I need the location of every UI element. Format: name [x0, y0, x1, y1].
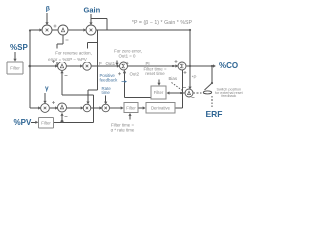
svg-text:Gain: Gain: [84, 5, 101, 14]
svg-text:reset time: reset time: [145, 71, 165, 76]
svg-text:feedback: feedback: [221, 94, 236, 98]
svg-text:Out2: Out2: [130, 71, 140, 76]
svg-text:Bias: Bias: [169, 76, 178, 81]
svg-text:Filter: Filter: [10, 66, 20, 71]
svg-text:ERF: ERF: [206, 109, 223, 119]
svg-text:%SP: %SP: [10, 43, 28, 52]
svg-text:%PV: %PV: [14, 118, 32, 127]
svg-text:P: P: [99, 61, 102, 66]
svg-text:time: time: [102, 90, 111, 95]
svg-text:feedback: feedback: [100, 78, 119, 83]
svg-text:γ: γ: [45, 85, 49, 92]
svg-text:Out1: Out1: [106, 61, 116, 66]
svg-text:α * rate time: α * rate time: [111, 127, 135, 132]
svg-text:*P: *P: [192, 74, 197, 79]
svg-text:Derivative: Derivative: [151, 106, 171, 111]
svg-text:Filter: Filter: [154, 90, 164, 95]
svg-text:β: β: [46, 6, 50, 13]
svg-text:*P = (β − 1) * Gain * %SP: *P = (β − 1) * Gain * %SP: [132, 20, 193, 26]
svg-text:For reverse action,: For reverse action,: [55, 51, 92, 56]
svg-text:PI: PI: [146, 61, 150, 66]
svg-text:Filter: Filter: [41, 121, 51, 126]
svg-text:%CO: %CO: [219, 61, 238, 70]
svg-text:Out1 = 0: Out1 = 0: [119, 53, 137, 58]
svg-text:Filter: Filter: [126, 105, 136, 110]
